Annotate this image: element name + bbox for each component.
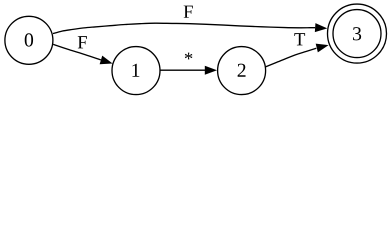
accepting state 3 (double circle)	[333, 10, 381, 58]
edge 0 to 3	[53, 23, 315, 33]
label * (edge 1-2)	[185, 53, 193, 60]
label F (edge 0-1)	[78, 36, 87, 48]
arrowhead into 1	[100, 56, 113, 65]
state 1	[112, 47, 160, 95]
edge 2 to 3	[266, 48, 317, 66]
arrowhead into 3 (from 2)	[316, 44, 329, 53]
edge 1 to 2	[160, 69, 205, 71]
state 0	[5, 16, 53, 64]
arrowhead into 2	[205, 66, 217, 75]
arrowhead into 3 (from 0)	[315, 23, 327, 32]
edge 0 to 1	[53, 44, 101, 60]
label F (edge 0-3)	[184, 6, 193, 18]
state 2	[218, 47, 266, 95]
label T (edge 2-3)	[294, 33, 305, 45]
